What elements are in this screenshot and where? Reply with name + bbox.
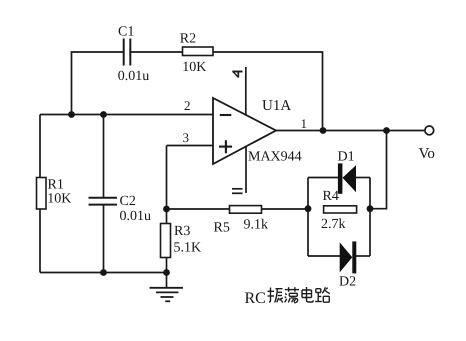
svg-text:RC: RC	[245, 290, 266, 307]
svg-text:2: 2	[184, 98, 191, 113]
svg-text:R4: R4	[323, 189, 339, 204]
svg-text:R5: R5	[214, 221, 230, 236]
svg-text:9.1k: 9.1k	[244, 218, 269, 233]
svg-text:D1: D1	[338, 150, 355, 165]
svg-text:10K: 10K	[47, 192, 71, 207]
svg-text:D2: D2	[339, 274, 356, 289]
svg-text:Vo: Vo	[419, 146, 435, 162]
svg-text:0.01u: 0.01u	[120, 209, 152, 224]
svg-text:1: 1	[301, 116, 308, 131]
svg-text:R2: R2	[180, 31, 196, 46]
svg-text:R1: R1	[48, 178, 64, 193]
svg-text:C2: C2	[120, 194, 136, 209]
svg-text:R3: R3	[174, 224, 190, 239]
svg-text:MAX944: MAX944	[248, 150, 302, 165]
svg-text:0.01u: 0.01u	[118, 69, 150, 84]
svg-text:10K: 10K	[182, 60, 206, 75]
svg-text:3: 3	[183, 130, 190, 145]
svg-text:2.7k: 2.7k	[321, 217, 346, 232]
svg-text:C1: C1	[118, 25, 134, 40]
svg-text:5.1K: 5.1K	[174, 240, 202, 255]
svg-text:U1A: U1A	[262, 98, 291, 114]
